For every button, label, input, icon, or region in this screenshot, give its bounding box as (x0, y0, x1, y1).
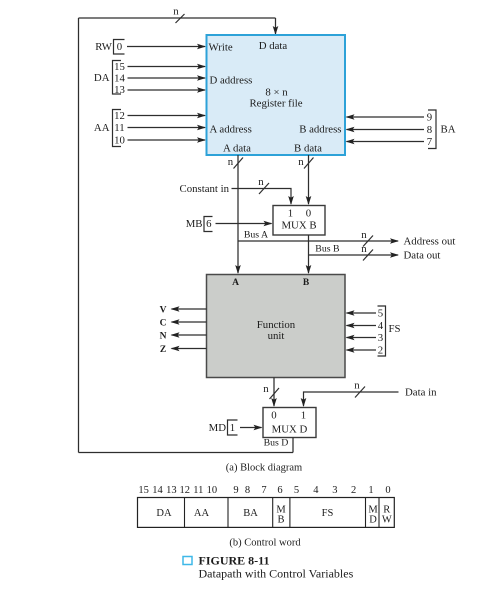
svg-text:11: 11 (114, 122, 124, 134)
svg-text:n: n (354, 380, 360, 392)
svg-text:8: 8 (245, 485, 250, 496)
svg-text:14: 14 (114, 73, 125, 85)
svg-text:RW: RW (95, 41, 113, 53)
svg-text:Bus B: Bus B (315, 244, 340, 255)
wire FS bit 2 (347, 349, 377, 351)
svg-text:D address: D address (210, 75, 253, 87)
wire Data in to MUX D input 1 (304, 392, 399, 406)
wire AA bit 10 (128, 139, 206, 141)
wire DA bit 13 (128, 89, 206, 91)
svg-text:FIGURE 8-11: FIGURE 8-11 (199, 554, 270, 568)
wire BA bit 9 (347, 116, 425, 118)
signal MB bit 6 (186, 217, 213, 232)
slash n on Constant in wire (259, 183, 269, 194)
svg-text:BA: BA (243, 508, 258, 519)
wire Z (172, 348, 207, 350)
svg-text:Bus D: Bus D (264, 438, 289, 449)
svg-text:AA: AA (194, 508, 210, 519)
register file U1 (207, 35, 346, 155)
wire Bus B to Data out (309, 254, 399, 256)
svg-text:10: 10 (207, 485, 218, 496)
svg-text:W: W (382, 515, 392, 526)
svg-text:6: 6 (277, 485, 282, 496)
svg-text:Data out: Data out (404, 250, 441, 262)
svg-text:2: 2 (378, 345, 383, 357)
wire BA bit 7 (347, 141, 425, 143)
wire AA bit 11 (128, 127, 206, 129)
svg-text:unit: unit (268, 330, 285, 342)
slash n on Data in wire (355, 387, 365, 398)
svg-text:MB: MB (186, 218, 203, 230)
svg-text:14: 14 (152, 485, 163, 496)
svg-text:8: 8 (427, 124, 432, 136)
svg-text:Datapath with Control Variable: Datapath with Control Variables (199, 567, 354, 581)
wire FS bit 3 (347, 337, 377, 339)
svg-text:Address out: Address out (404, 236, 456, 248)
slash n on top feedback wire (176, 14, 185, 23)
svg-text:N: N (160, 332, 167, 342)
svg-text:4: 4 (313, 485, 319, 496)
wire DA bit 15 (128, 66, 206, 68)
svg-text:n: n (263, 383, 269, 395)
svg-text:7: 7 (427, 136, 433, 148)
wire Bus A to Address out (238, 240, 398, 242)
svg-text:6: 6 (206, 218, 212, 230)
wire Bus D vertical from MUX D (292, 438, 294, 453)
figure caption marker square (183, 557, 192, 565)
svg-text:BA: BA (441, 124, 456, 136)
wire RW to Write (127, 46, 205, 48)
svg-text:FS: FS (389, 323, 401, 335)
svg-text:1: 1 (368, 485, 373, 496)
signal AA bits 12 11 10 (94, 110, 125, 147)
wire AA bit 12 (128, 115, 206, 117)
svg-text:Z: Z (160, 345, 166, 355)
svg-text:A: A (232, 278, 239, 288)
wire BA bit 8 (347, 129, 425, 131)
svg-text:DA: DA (156, 508, 172, 519)
function unit U2 (207, 275, 346, 378)
svg-text:1: 1 (230, 422, 235, 434)
wire function unit output to MUX D input 0 (273, 378, 275, 407)
wire N (172, 334, 207, 336)
svg-text:5: 5 (378, 308, 383, 320)
svg-text:n: n (361, 229, 367, 241)
svg-text:MD: MD (209, 422, 227, 434)
svg-text:A address: A address (210, 124, 252, 136)
svg-text:(a) Block diagram: (a) Block diagram (226, 463, 302, 474)
svg-text:Bus A: Bus A (244, 230, 268, 241)
svg-text:0: 0 (271, 410, 276, 422)
signal RW bit 0 (95, 40, 124, 55)
control word table (138, 485, 395, 528)
svg-text:0: 0 (385, 485, 390, 496)
svg-text:13: 13 (166, 485, 177, 496)
slash n on B data (304, 158, 314, 169)
wire FS bit 5 (347, 312, 377, 314)
signal DA bits 15 14 13 (94, 61, 126, 97)
wire V (172, 308, 207, 310)
slash n on A data (234, 158, 244, 169)
svg-text:Constant in: Constant in (180, 183, 230, 195)
svg-text:9: 9 (427, 112, 432, 124)
svg-text:2: 2 (351, 485, 356, 496)
svg-text:D data: D data (259, 40, 288, 52)
svg-text:n: n (298, 156, 304, 168)
svg-text:(b) Control word: (b) Control word (229, 538, 301, 549)
wire DA bit 14 (128, 77, 206, 79)
svg-text:n: n (173, 6, 179, 18)
svg-text:FS: FS (322, 508, 334, 519)
svg-text:n: n (361, 243, 367, 255)
wire FS bit 4 (347, 325, 377, 327)
wire MUX B output to function unit B (308, 235, 310, 273)
mux MUX B (273, 206, 325, 236)
svg-text:12: 12 (114, 110, 125, 122)
wire feedback loop top horizontal (79, 17, 276, 19)
svg-text:10: 10 (114, 135, 125, 147)
svg-text:B: B (277, 515, 284, 526)
svg-text:1: 1 (301, 410, 306, 422)
wire Constant in to MUX B input 1 (232, 189, 292, 205)
wire Bus D bottom horizontal to feedback loop (79, 452, 294, 454)
svg-text:A data: A data (223, 143, 251, 155)
svg-text:1: 1 (288, 208, 293, 220)
svg-text:V: V (160, 306, 167, 316)
svg-text:3: 3 (332, 485, 337, 496)
svg-text:B: B (303, 278, 310, 288)
wire feedback loop left vertical (78, 18, 80, 453)
svg-text:D: D (369, 515, 377, 526)
svg-text:AA: AA (94, 122, 110, 134)
wire A data vertical (237, 155, 239, 273)
svg-text:MUX D: MUX D (272, 424, 308, 436)
svg-text:3: 3 (378, 332, 383, 344)
slash n on function unit output (270, 388, 280, 399)
svg-text:Register file: Register file (249, 98, 302, 110)
svg-text:n: n (258, 176, 264, 188)
svg-text:5: 5 (294, 485, 299, 496)
wire B data vertical (308, 155, 310, 204)
mux MUX D (263, 408, 316, 438)
signal BA bits 9 8 7 (427, 110, 456, 149)
svg-text:4: 4 (378, 320, 384, 332)
svg-text:n: n (228, 156, 234, 168)
svg-text:B address: B address (299, 124, 341, 136)
svg-text:9: 9 (233, 485, 238, 496)
svg-text:Data in: Data in (405, 387, 437, 399)
svg-text:B data: B data (294, 143, 322, 155)
wire MD select to MUX D (240, 427, 262, 429)
slash n on Bus A (363, 236, 373, 247)
svg-text:13: 13 (114, 84, 125, 96)
svg-text:11: 11 (193, 485, 203, 496)
svg-text:DA: DA (94, 72, 110, 84)
svg-text:12: 12 (180, 485, 191, 496)
wire D data drop into register file (275, 18, 277, 34)
svg-text:C: C (160, 319, 167, 329)
svg-text:0: 0 (306, 208, 311, 220)
svg-text:MUX B: MUX B (281, 220, 316, 232)
wire MB select to MUX B (216, 223, 272, 225)
slash n on Bus B (363, 250, 373, 261)
svg-text:15: 15 (138, 485, 149, 496)
signal FS bits 5 4 3 2 (378, 306, 401, 357)
svg-text:Write: Write (209, 42, 233, 54)
wire C (172, 321, 207, 323)
svg-text:0: 0 (117, 41, 122, 53)
signal MD bit 1 (209, 420, 238, 435)
svg-text:15: 15 (114, 61, 125, 73)
svg-text:7: 7 (261, 485, 266, 496)
